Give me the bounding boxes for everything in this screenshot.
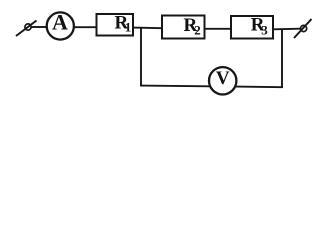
wire: voltmeter to bottom right corner <box>236 86 283 89</box>
wire: ammeter to R1 <box>74 26 97 28</box>
resistor R3 <box>231 15 273 39</box>
wire: vertical branch from node after R3 down to voltmeter loop <box>281 29 283 87</box>
ammeter A1 <box>47 10 74 40</box>
resistor R2 <box>162 15 205 39</box>
resistor R1 <box>97 12 134 35</box>
wire: left terminal to ammeter <box>31 26 47 28</box>
svg-text:3: 3 <box>261 23 268 38</box>
wire: R2 to R3 <box>205 28 232 30</box>
right terminal (circle with slash) <box>294 19 312 38</box>
wire: R3 to right terminal <box>273 28 300 31</box>
svg-text:V: V <box>216 68 230 89</box>
voltmeter V1 <box>209 67 236 94</box>
svg-text:2: 2 <box>194 23 201 38</box>
svg-text:1: 1 <box>125 19 132 34</box>
wire: bottom loop left horizontal segment to voltmeter <box>140 85 210 88</box>
wire: vertical branch from node between R1 and R2 down to voltmeter loop <box>140 28 142 86</box>
svg-text:A: A <box>52 10 68 35</box>
left terminal (circle with slash) <box>16 21 37 37</box>
wire: R1 to R2 <box>133 27 162 30</box>
